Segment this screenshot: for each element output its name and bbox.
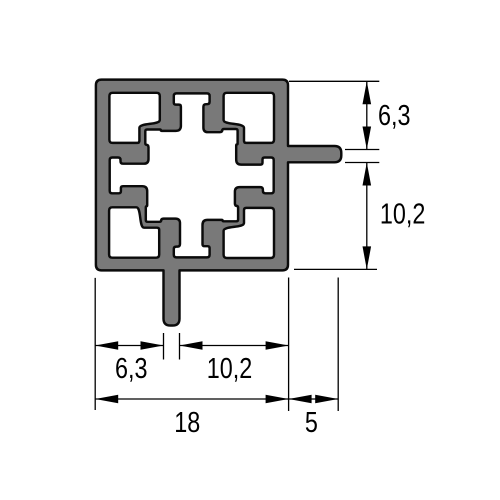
arrow 18 left (95, 395, 118, 404)
dim line 10,2 right (366, 163, 368, 270)
svg-text:6,3: 6,3 (378, 99, 410, 132)
arrow 6,3 left (95, 341, 118, 350)
svg-text:6,3: 6,3 (115, 352, 147, 385)
arrow 5 right (315, 395, 338, 404)
extension line far right (5) (337, 278, 339, 412)
arrow 6,3 bottom (363, 127, 372, 150)
extension line tab bottom (345, 162, 379, 164)
arrow 10,2 right (266, 341, 289, 350)
arrow 10,2 left (180, 341, 203, 350)
arrow 18 right (266, 395, 289, 404)
dim line 5 (289, 398, 339, 400)
svg-text:10,2: 10,2 (207, 352, 252, 385)
dim line 18 (95, 398, 288, 400)
arrow 10,2 top (363, 163, 372, 186)
dim line 6,3 right (366, 81, 368, 149)
arrow 6,3 top (363, 81, 372, 104)
profile body: outer boundary with right tab and bottom tab, four corner cavities, central cavity (96, 80, 341, 326)
tick tab right (179, 333, 181, 360)
label 10,2 right (380, 197, 425, 230)
label 6,3 bottom (115, 352, 147, 385)
label 5 (305, 406, 318, 439)
extension line bottom left (94, 278, 96, 410)
dim line 10,2 bottom (180, 345, 289, 347)
arrow 6,3 right (141, 341, 164, 350)
svg-text:5: 5 (305, 406, 318, 439)
extension line top edge right side (289, 80, 379, 82)
label 10,2 bottom (207, 352, 252, 385)
dim line 6,3 bottom (95, 345, 163, 347)
tick tab left (163, 333, 165, 360)
arrow 10,2 bottom (363, 246, 372, 269)
arrow 5 left (289, 395, 312, 404)
svg-text:18: 18 (174, 406, 200, 439)
extension line bottom right (288, 278, 290, 412)
extension line tab top (345, 149, 379, 151)
label 18 (174, 406, 200, 439)
extension line bottom edge right side (294, 268, 377, 270)
label 6,3 right (378, 99, 410, 132)
svg-text:10,2: 10,2 (380, 197, 425, 230)
